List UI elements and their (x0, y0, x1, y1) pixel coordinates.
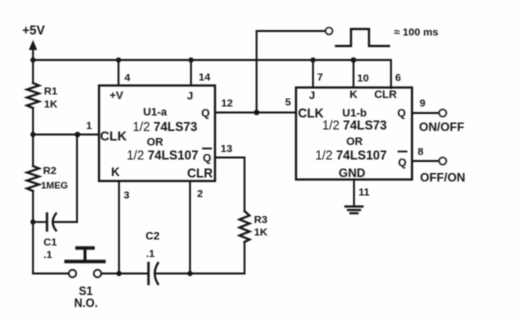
svg-text:U1-a: U1-a (143, 107, 168, 119)
node: +5V rail / top bus junction (30, 57, 35, 62)
svg-text:+V: +V (110, 90, 124, 102)
node: rail / C1 junction (30, 219, 35, 224)
capacitor C2 right curved plate (155, 263, 158, 284)
svg-text:10: 10 (357, 73, 369, 85)
node: CLK / C1 branch junction (75, 132, 81, 138)
node: bus / pin 14 (188, 57, 193, 62)
svg-text:1: 1 (86, 120, 92, 132)
svg-text:4: 4 (124, 72, 130, 84)
node: bus / pin 10 (351, 57, 357, 63)
wire: R3 bottom lead (244, 242, 246, 274)
wire: S1 to C2 (102, 273, 148, 275)
svg-text:OR: OR (147, 137, 164, 149)
resistor R2 (27, 166, 39, 191)
svg-text:CLK: CLK (298, 107, 324, 121)
svg-text:R1: R1 (44, 86, 58, 98)
svg-text:1/2 74LS73: 1/2 74LS73 (322, 119, 387, 133)
wire: rail to C1 (33, 221, 46, 223)
svg-text:Q: Q (203, 153, 212, 165)
capacitor C2 left plate (147, 263, 149, 284)
svg-text:2: 2 (197, 188, 203, 200)
wire: pin 4 (118, 60, 120, 86)
svg-text:Q: Q (397, 108, 406, 120)
node: bus / pin 7 (310, 57, 315, 62)
pin 8 output terminal (439, 158, 446, 165)
svg-text:CLK: CLK (100, 129, 127, 144)
wire: left rail bottom segment (32, 191, 34, 274)
switch S1 actuator bar (66, 260, 104, 263)
switch S1 right terminal (94, 270, 101, 277)
node: pin12 wire / pulse branch (254, 110, 260, 116)
wire: pin 8 output (412, 160, 439, 162)
svg-text:7: 7 (317, 72, 323, 84)
svg-text:J: J (187, 91, 193, 103)
resistor R1 (27, 83, 39, 108)
svg-text:3: 3 (124, 190, 130, 202)
flip-flop U1-b (296, 88, 412, 180)
wire: pin 10 (353, 60, 355, 88)
pulse waveform (336, 29, 389, 46)
svg-text:13: 13 (221, 143, 233, 155)
node: rail / CLK wire junction (30, 132, 35, 137)
svg-text:C2: C2 (146, 231, 160, 243)
wire: C1 branch vertical up to CLK wire (76, 135, 78, 223)
svg-text:8: 8 (418, 146, 424, 158)
wire: pin 2 (189, 181, 191, 274)
node: bottom wire / pin 3 junction (116, 271, 121, 276)
wire: left rail top segment (32, 48, 34, 83)
pulse output terminal (326, 28, 333, 35)
svg-text:9: 9 (420, 98, 426, 110)
wire: pulse output branch (257, 31, 326, 113)
svg-text:11: 11 (358, 187, 369, 199)
svg-text:5: 5 (285, 97, 291, 109)
wire: bottom wire to S1 (33, 273, 69, 275)
svg-text:R3: R3 (254, 214, 268, 226)
+5V arrow (29, 40, 37, 50)
resistor R3 (240, 211, 250, 242)
wire: pin 7 (312, 60, 314, 88)
svg-text:1/2 74LS107: 1/2 74LS107 (315, 149, 387, 163)
capacitor C1 left plate (46, 214, 48, 231)
switch S1 actuator stem (84, 250, 87, 260)
wire: CLK wire (pin 1) (33, 134, 99, 136)
svg-text:.1: .1 (146, 248, 155, 260)
wire: pin 14 (190, 60, 192, 86)
svg-text:14: 14 (199, 72, 211, 84)
node: bottom wire / pin 2 junction (187, 271, 192, 276)
wire: Q pin12 to CLK pin5 (215, 112, 296, 114)
wire: R3 top lead to pin 13 (215, 158, 245, 212)
svg-text:N.O.: N.O. (74, 298, 98, 310)
svg-text:GND: GND (339, 166, 366, 180)
wire: left rail between R1 and R2 (32, 108, 34, 166)
svg-text:OR: OR (346, 136, 363, 148)
wire: C1 to vertical branch (53, 221, 77, 223)
svg-text:J: J (309, 90, 315, 102)
svg-text:1K: 1K (44, 99, 58, 111)
svg-text:OFF/ON: OFF/ON (420, 171, 465, 185)
wire: pin 11 to ground (353, 180, 355, 206)
svg-text:K: K (111, 165, 120, 179)
svg-text:K: K (350, 89, 358, 101)
svg-text:+5V: +5V (22, 24, 45, 38)
svg-text:12: 12 (221, 98, 233, 110)
switch S1 actuator cap (77, 246, 93, 249)
svg-text:Q: Q (201, 108, 210, 120)
svg-text:1/2 74LS73: 1/2 74LS73 (133, 120, 198, 134)
svg-text:1/2 74LS107: 1/2 74LS107 (127, 149, 199, 163)
svg-text:CLR: CLR (187, 167, 213, 181)
svg-text:C1: C1 (44, 237, 58, 249)
svg-text:1K: 1K (254, 227, 268, 239)
switch S1 left terminal (69, 270, 76, 277)
svg-text:≈ 100 ms: ≈ 100 ms (394, 27, 438, 39)
wire: pin 9 output (412, 112, 439, 114)
svg-text:S1: S1 (79, 286, 94, 298)
ground (346, 207, 363, 214)
svg-text:1MEG: 1MEG (41, 181, 68, 192)
wire: C2 to R3 branch (155, 273, 245, 275)
flip-flop U1-a (99, 86, 215, 182)
svg-text:6: 6 (395, 72, 401, 84)
svg-text:Q: Q (398, 157, 407, 169)
svg-text:ON/OFF: ON/OFF (419, 120, 464, 134)
svg-text:CLR: CLR (374, 89, 397, 101)
capacitor C1 right curved plate (53, 214, 56, 231)
wire: top +5V bus (33, 60, 391, 88)
pin 9 output terminal (439, 110, 446, 117)
wire: pin 3 (118, 181, 120, 274)
node: bus / pin 4 (116, 57, 121, 62)
svg-text:.1: .1 (44, 249, 53, 261)
svg-text:R2: R2 (43, 165, 57, 177)
